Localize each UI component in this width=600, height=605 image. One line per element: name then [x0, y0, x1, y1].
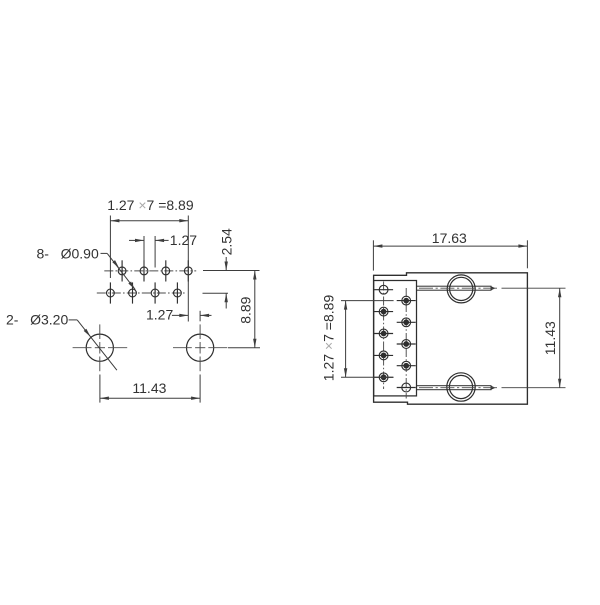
dimension 2.54 (row spacing) [203, 257, 260, 309]
jack screw pin bar top [417, 286, 496, 290]
text 11.43 right (rotated) [542, 321, 558, 355]
jack screw boss top (double circle) [447, 275, 475, 303]
dimension 8.89 (vertical right) [228, 271, 260, 348]
centerline jack top [419, 287, 566, 289]
svg-text:1.27 ×7 =8.89: 1.27 ×7 =8.89 [320, 295, 336, 382]
jack screw boss bottom (double circle) [447, 373, 475, 401]
svg-text:17.63: 17.63 [432, 230, 467, 246]
dimension 1.27x7=8.89 (top) [110, 216, 188, 322]
text 8- Ø0.90 [37, 245, 99, 261]
svg-text:8.89: 8.89 [237, 296, 253, 323]
centerline bottom pin row [97, 292, 186, 294]
centerline top pin row [104, 270, 196, 272]
body shell outline [374, 273, 528, 404]
mounting hole right (Ø3.20) [173, 324, 227, 371]
dimension 11.43 (bottom) [100, 375, 200, 403]
pins left column (filled) [374, 307, 393, 381]
svg-text:1.27: 1.27 [146, 307, 173, 323]
text 1.27x7=8.89 right (rotated) [320, 295, 336, 382]
text 1.27 lower [146, 307, 173, 323]
text 2- Ø3.20 [6, 311, 68, 327]
leader 2- Ø3.20 [69, 320, 117, 370]
dimension 1.27x7=8.89 (right view, rotated) [341, 301, 394, 378]
text 1.27x7=8.89 top [107, 197, 194, 213]
leader 8- Ø0.90 [101, 253, 137, 290]
dimension 1.27 (upper, pin offset) [129, 236, 169, 268]
hole row A (4 x Ø0.90, top) [118, 260, 192, 281]
svg-text:2.54: 2.54 [219, 228, 235, 255]
dimension 1.27 (lower, last pin to mounting hole) [172, 311, 212, 322]
text 11.43 bottom [132, 380, 166, 396]
dimension 11.43 (right) [558, 288, 561, 388]
centerline jack bottom [419, 387, 566, 389]
svg-text:8- Ø0.90: 8- Ø0.90 [37, 245, 99, 261]
flange face rectangle [374, 281, 417, 396]
svg-text:11.43: 11.43 [132, 380, 166, 396]
text 2.54 (rotated) [219, 228, 235, 255]
mounting hole left (Ø3.20) [73, 324, 128, 371]
jack screw pin bar bottom [417, 386, 496, 390]
svg-text:11.43: 11.43 [542, 321, 558, 355]
dimension 17.63 (top) [373, 240, 527, 270]
polarizing hole bottom-right (open) [397, 383, 416, 392]
pins right column (filled) [397, 296, 416, 370]
svg-text:1.27 ×7 =8.89: 1.27 ×7 =8.89 [107, 197, 194, 213]
text 8.89 (rotated) [237, 296, 253, 323]
hole row B (4 x Ø0.90, bottom) [107, 282, 182, 303]
svg-text:2- Ø3.20: 2- Ø3.20 [6, 311, 68, 327]
svg-text:1.27: 1.27 [170, 232, 197, 248]
pin column centerline left [383, 282, 385, 390]
text 1.27 upper [170, 232, 197, 248]
pin column centerline right [405, 288, 407, 399]
text 17.63 [432, 230, 467, 246]
polarizing hole top-left (open) [374, 285, 393, 294]
